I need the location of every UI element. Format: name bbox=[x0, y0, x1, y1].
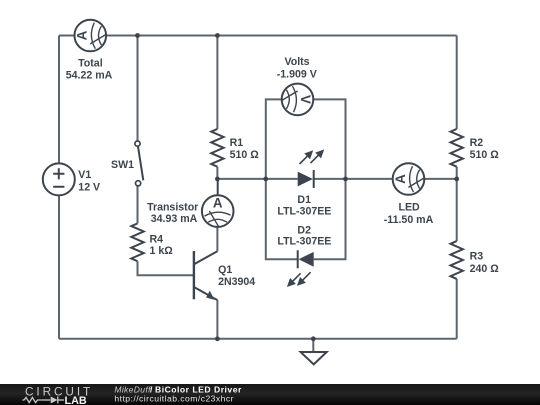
svg-text:LAB: LAB bbox=[65, 395, 87, 405]
junction dot right rail LED bbox=[454, 177, 459, 182]
wire meter top bbox=[217, 179, 219, 195]
svg-text:R3: R3 bbox=[470, 251, 484, 263]
svg-text:510 Ω: 510 Ω bbox=[230, 149, 260, 161]
svg-text:D1: D1 bbox=[297, 194, 311, 206]
svg-text:34.93 mA: 34.93 mA bbox=[151, 213, 198, 225]
diode D1 bbox=[298, 170, 314, 188]
svg-text:V: V bbox=[298, 95, 313, 104]
svg-text:R4: R4 bbox=[150, 234, 164, 246]
wire ground stem bbox=[312, 339, 314, 352]
svg-text:LED: LED bbox=[399, 202, 421, 214]
junction dot emitter bottom bbox=[215, 336, 220, 341]
svg-text:SW1: SW1 bbox=[111, 159, 134, 171]
switch SW1 bbox=[135, 141, 143, 186]
LED arrows D1 bbox=[300, 151, 323, 164]
svg-text:Q1: Q1 bbox=[218, 264, 232, 276]
junction dot top SW1 bbox=[135, 33, 140, 38]
svg-text:A: A bbox=[393, 174, 408, 184]
ammeter Transistor bbox=[202, 195, 234, 227]
svg-text:12 V: 12 V bbox=[78, 181, 100, 193]
ammeter Total bbox=[75, 20, 107, 52]
LED arrows D2 bbox=[288, 272, 310, 286]
junction dot R1 bottom bbox=[215, 177, 220, 182]
svg-text:R2: R2 bbox=[470, 137, 484, 149]
wire top rail bbox=[59, 35, 457, 37]
svg-text:2N3904: 2N3904 bbox=[218, 276, 255, 288]
wire volts loop bbox=[266, 99, 346, 178]
svg-text:Volts: Volts bbox=[284, 56, 309, 68]
wire collector bbox=[216, 227, 218, 251]
wire emitter vertical bbox=[216, 300, 218, 339]
junction dot box right bbox=[343, 177, 348, 182]
footer bar bbox=[0, 384, 540, 405]
junction dot top R1 bbox=[215, 33, 220, 38]
transistor Q1 bbox=[194, 251, 218, 300]
svg-text:A: A bbox=[213, 196, 223, 211]
svg-text:LTL-307EE: LTL-307EE bbox=[277, 205, 331, 217]
resistor R2 bbox=[451, 129, 463, 167]
logo resistor-diode glyph bbox=[23, 397, 65, 404]
diode D2 bbox=[298, 250, 314, 268]
svg-text:510 Ω: 510 Ω bbox=[470, 149, 500, 161]
resistor R4 bbox=[131, 223, 143, 261]
svg-text:LTL-307EE: LTL-307EE bbox=[277, 236, 331, 248]
resistor R3 bbox=[451, 241, 463, 279]
source V1 bbox=[43, 163, 75, 195]
wire R1 branch bbox=[216, 36, 218, 179]
svg-text:-1.909 V: -1.909 V bbox=[277, 68, 317, 80]
svg-text:240 Ω: 240 Ω bbox=[470, 263, 500, 275]
wire left rail bbox=[58, 36, 60, 339]
svg-text:V1: V1 bbox=[78, 169, 91, 181]
svg-text:D2: D2 bbox=[297, 224, 311, 236]
wire right rail bbox=[456, 36, 458, 339]
wire bottom rail bbox=[59, 338, 457, 340]
wire D1 row bbox=[217, 178, 456, 180]
svg-text:http://circuitlab.com/c23xhcr: http://circuitlab.com/c23xhcr bbox=[114, 394, 234, 404]
svg-text:54.22 mA: 54.22 mA bbox=[66, 69, 113, 81]
svg-text:R1: R1 bbox=[230, 137, 244, 149]
junction dot box left bbox=[263, 177, 268, 182]
svg-text:Transistor: Transistor bbox=[147, 201, 198, 213]
svg-text:-11.50 mA: -11.50 mA bbox=[384, 214, 434, 226]
resistor R1 bbox=[211, 129, 223, 167]
wire D2 loop bbox=[266, 179, 346, 259]
ammeter LED bbox=[393, 163, 425, 195]
svg-text:A: A bbox=[75, 30, 90, 40]
svg-text:Total: Total bbox=[78, 57, 103, 69]
ground bbox=[301, 352, 327, 364]
wire SW1 branch bbox=[138, 36, 194, 276]
voltmeter Volts bbox=[282, 84, 314, 116]
junction dot ground bbox=[311, 336, 316, 341]
svg-text:1 kΩ: 1 kΩ bbox=[150, 245, 174, 257]
